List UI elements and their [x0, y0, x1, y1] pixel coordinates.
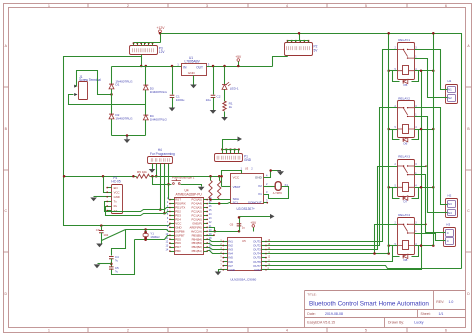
- connector H4 body: [148, 157, 173, 164]
- wire PB5 stub: [208, 235, 215, 237]
- svg-text:U3: U3: [245, 166, 249, 170]
- wire H4 pin3 serial: [160, 164, 162, 210]
- svg-text:HC-05: HC-05: [111, 180, 120, 184]
- driver U5 ULN2003A body: [228, 238, 262, 271]
- connector H4 pin texts: [151, 158, 153, 162]
- frame row ticks right: [466, 86, 472, 88]
- wire relay2 pin1 to H2 N4: [415, 117, 446, 213]
- svg-text:3: 3: [206, 4, 208, 8]
- wire PB3 to IN2: [208, 244, 223, 246]
- svg-text:PB0: PB0: [175, 249, 181, 253]
- wire reset branch down: [153, 177, 172, 185]
- ground C4 C5: [94, 264, 101, 268]
- svg-text:U5: U5: [242, 239, 246, 243]
- wire xtal2 down to C5 loop: [112, 240, 135, 275]
- wire C1 to ground: [172, 98, 174, 108]
- wire button line mid: [153, 184, 172, 186]
- connector J1 pin 1 arrow: [74, 85, 77, 88]
- wire COM to coil bus: [267, 71, 422, 270]
- wire xtal1 line to PB6: [126, 230, 170, 232]
- wire SDA net: [209, 199, 231, 201]
- diode D1 symbol: [109, 84, 114, 89]
- svg-text:D8: D8: [404, 258, 408, 262]
- ground U1: [190, 85, 197, 89]
- svg-text:1k: 1k: [229, 105, 233, 109]
- node RELAY4 pin4 com bus: [420, 244, 423, 247]
- connector P2 body: [285, 43, 313, 56]
- connector P1 pin texts: [217, 156, 219, 160]
- svg-text:D6: D6: [404, 141, 408, 145]
- node C6 top: [238, 216, 241, 219]
- svg-text:EasyEDA V5.6.15: EasyEDA V5.6.15: [307, 321, 335, 325]
- relay RELAY3 body: [398, 160, 415, 197]
- svg-text:GND: GND: [228, 268, 234, 272]
- ground push button: [198, 187, 205, 191]
- relay RELAY2 contacts: [397, 108, 414, 117]
- U3 SQWOUT stub: [264, 202, 268, 204]
- wire P3 pin tie: [134, 42, 161, 44]
- connector J1 pin 2 arrow: [74, 93, 77, 96]
- wire R1 to ground: [224, 112, 226, 118]
- MCU U4 left pins: [170, 199, 175, 201]
- crystal X1 32k symbol: [275, 182, 281, 191]
- svg-text:L7805ABV: L7805ABV: [185, 60, 201, 64]
- ground H4: [149, 169, 156, 173]
- node C9 tap on VCC rail: [100, 224, 103, 227]
- svg-text:VCC: VCC: [114, 190, 120, 194]
- connector H1 pin N1: [448, 87, 456, 93]
- resistor R4 pullup SCL: [218, 180, 221, 199]
- relay RELAY1 contacts: [397, 49, 414, 58]
- wire RELAY1 pin5 to bus: [389, 70, 398, 72]
- wire C9 drop: [101, 226, 103, 231]
- connector P4 HC-05 body: [112, 185, 123, 214]
- wire relay1 pin1 to H1 N2: [415, 59, 446, 98]
- wire main DC rail into U1: [112, 66, 182, 68]
- node +12V rail junction: [159, 32, 162, 35]
- connector P3 pin texts: [133, 48, 135, 52]
- svg-text:H2: H2: [448, 194, 452, 198]
- connector H1 body: [446, 85, 458, 104]
- ground C1: [169, 108, 176, 112]
- wire reset rail right segment: [150, 176, 222, 178]
- node RELAY1 pin5 bus: [387, 69, 390, 72]
- svg-text:1N4007RLG: 1N4007RLG: [150, 118, 168, 122]
- ground U5: [215, 272, 222, 276]
- relay RELAY3 contacts: [397, 166, 414, 175]
- resistor R1 symbol: [223, 101, 226, 111]
- wire +5V rail to U3 VCC: [222, 171, 242, 187]
- wire U3 GND to ground: [264, 171, 278, 178]
- RTC U3 DS1307 body: [231, 174, 264, 204]
- node H4 pin5 button line: [167, 183, 170, 186]
- diode D4 symbol: [143, 115, 148, 120]
- wire +12V stem: [160, 33, 162, 43]
- resistor R3 pullup SDA: [209, 180, 212, 199]
- svg-text:AREF(P6): AREF(P6): [190, 225, 202, 229]
- svg-text:D7: D7: [404, 200, 408, 204]
- capacitor C6 symbol: [237, 224, 242, 226]
- wire C6 vertical: [239, 217, 241, 232]
- wire U3 X2 to crystal: [264, 186, 276, 188]
- svg-text:1.0: 1.0: [449, 300, 454, 304]
- connector H3 pin C: [446, 230, 454, 237]
- svg-text:N1: N1: [448, 88, 452, 92]
- node H4 pin4: [163, 212, 166, 215]
- node R4 bottom SCL: [218, 202, 221, 205]
- connector H1 pin N2: [448, 95, 456, 102]
- svg-text:PC4(A4): PC4(A4): [191, 202, 201, 206]
- svg-text:ATMEGA328P-PU: ATMEGA328P-PU: [176, 192, 203, 196]
- wire SCL net: [209, 203, 231, 204]
- wire P1 tie to ground: [223, 140, 238, 150]
- wire C9 bottom diagonal to xtal line: [102, 230, 126, 241]
- svg-text:6: 6: [445, 328, 447, 332]
- title block: [305, 291, 466, 328]
- svg-text:C9: C9: [96, 228, 100, 232]
- wire H4 pin2 to +5V rail: [156, 164, 158, 177]
- wire bridge right branch: [145, 67, 147, 136]
- wire RELAY2 diode loop: [393, 130, 400, 140]
- wire RELAY2 pin5 to bus: [389, 129, 398, 131]
- svg-text:VBAT: VBAT: [233, 185, 241, 189]
- svg-text:N3: N3: [448, 202, 452, 206]
- svg-text:C: C: [447, 231, 449, 235]
- ground bridge bottom: [126, 136, 128, 140]
- wire OUT3 to relay3: [267, 167, 398, 250]
- node R5 left: [132, 175, 135, 178]
- node OUT4 corner: [373, 252, 376, 255]
- svg-text:VCC: VCC: [233, 175, 240, 179]
- wire OUT4 extension to coil bus: [375, 253, 389, 255]
- node R3 bottom SDA: [209, 198, 212, 201]
- flyback diode D5 symbol: [403, 79, 408, 83]
- svg-text:PB1(B1): PB1(B1): [192, 249, 202, 253]
- connector P3 pins top: [133, 43, 135, 46]
- svg-text:10u: 10u: [206, 98, 211, 102]
- wire RELAY3 diode loop: [393, 188, 400, 199]
- ground U3: [277, 171, 284, 175]
- capacitor C5 symbol: [109, 267, 114, 269]
- svg-text:SQWOUT: SQWOUT: [248, 201, 262, 205]
- svg-text:PB4(B4): PB4(B4): [192, 237, 202, 241]
- node coil bus top: [387, 32, 390, 35]
- svg-text:5: 5: [365, 4, 367, 8]
- wire relay2 pin3 to H2 N3: [415, 108, 446, 205]
- svg-text:C2: C2: [217, 94, 221, 98]
- MCU U4 ATMEGA328P body: [175, 198, 204, 255]
- wire LED drop: [224, 67, 226, 85]
- node RELAY1 pin4 com bus: [420, 69, 423, 72]
- push button S1 symbol: [173, 183, 175, 185]
- wire RELAY3 pin4 line: [415, 187, 434, 189]
- connector J1 screw terminal body: [79, 82, 88, 100]
- svg-text:A-TMHz: A-TMHz: [273, 192, 283, 195]
- wire RELAY2 pin4 line: [415, 129, 434, 131]
- wire RELAY4 pin5 to bus: [389, 245, 398, 247]
- svg-text:102: 102: [103, 233, 108, 237]
- svg-text:Date:: Date:: [307, 312, 315, 316]
- wire C4 to C5: [111, 259, 113, 267]
- wire crystal bottom line to PB7: [145, 239, 147, 241]
- relay RELAY4 body: [398, 218, 415, 255]
- wire HC-05 Rx to MCU: [106, 207, 170, 216]
- wire H4 pin1 to ground: [152, 164, 154, 170]
- wire relay3 pin1 to H3 C1: [415, 175, 444, 233]
- capacitor C1 symbol: [170, 95, 175, 97]
- node R5 right: [151, 175, 154, 178]
- svg-text:U3 DS1307+: U3 DS1307+: [237, 207, 255, 211]
- node P2 rail junction: [298, 32, 301, 35]
- node C1 tap: [171, 65, 174, 68]
- svg-text:4: 4: [286, 4, 288, 8]
- wire H4 pin5 to reset net: [168, 164, 170, 200]
- svg-text:C6: C6: [230, 222, 234, 226]
- node RELAY4 pin5 bus: [387, 244, 390, 247]
- connector P1 pins top: [222, 150, 224, 154]
- connector H3 pin C: [446, 238, 454, 245]
- node R3 top: [209, 175, 212, 178]
- node RELAY1 pin4 12v bus: [432, 69, 435, 72]
- wire P2 pin tie: [288, 40, 309, 42]
- wire RELAY4 diode loop: [393, 246, 400, 257]
- wire HC-05 GND: [94, 196, 107, 198]
- relay RELAY1 body: [398, 43, 415, 80]
- wire AREF branch: [209, 228, 215, 232]
- crystal Y1 symbol: [145, 230, 147, 233]
- node HC-05 VCC tap: [102, 175, 105, 178]
- wire +5V rail left segment: [64, 176, 134, 178]
- MCU U4 right pins: [204, 199, 208, 201]
- svg-text:1N4007RLG: 1N4007RLG: [150, 90, 168, 94]
- wire push button to ground: [181, 185, 202, 187]
- node rail left vertical: [63, 175, 66, 178]
- svg-text:5: 5: [365, 328, 367, 332]
- svg-text:PC5(A5): PC5(A5): [191, 198, 201, 202]
- wire P1 pin tie: [223, 149, 239, 151]
- svg-text:EN: EN: [114, 186, 118, 190]
- node U3 gnd corner: [269, 169, 272, 172]
- wire RELAY3 pin5 to bus: [389, 187, 398, 189]
- svg-text:PB5(B5): PB5(B5): [192, 233, 202, 237]
- svg-text:ST: ST: [114, 209, 118, 213]
- svg-text:AVCC(A): AVCC(A): [191, 229, 202, 233]
- ground right arrow AVCC: [270, 214, 275, 219]
- svg-text:Drawn By:: Drawn By:: [388, 321, 404, 325]
- wire AVCC line: [209, 231, 240, 233]
- voltage regulator U1 body: [182, 64, 207, 76]
- connector P2 pins top: [287, 41, 289, 43]
- node crystal top tap: [144, 228, 147, 231]
- node RELAY2 pin4 com bus: [420, 128, 423, 131]
- wire U1 GND stem: [193, 76, 195, 85]
- wire PB4 to IN1: [208, 240, 223, 242]
- wire HC-05 Tx to MCU: [105, 202, 170, 212]
- wire J1 pin1 to bridge node A: [77, 71, 112, 95]
- svg-text:RELAY1: RELAY1: [398, 38, 410, 42]
- svg-text:Rx: Rx: [114, 204, 118, 208]
- wire relay coil bus left: [388, 34, 390, 254]
- wire C9 to ground: [101, 233, 103, 244]
- connector P2 pin texts: [287, 46, 289, 50]
- svg-text:LED-1: LED-1: [230, 86, 239, 90]
- wire PB2 to IN3: [208, 248, 223, 250]
- wire OUT6 to relay4 diode: [267, 257, 393, 262]
- wire RELAY4 pin4 line: [415, 245, 434, 247]
- wire relay3 pin3 stub: [415, 166, 427, 168]
- wire C6 top to gnd arrow: [240, 216, 271, 218]
- svg-text:3: 3: [206, 328, 208, 332]
- svg-text:12V: 12V: [159, 50, 166, 54]
- wire U1 output rail: [207, 66, 273, 68]
- node RELAY3 pin5 bus: [387, 186, 390, 189]
- svg-text:1/1: 1/1: [439, 312, 444, 316]
- diode D2 symbol: [109, 114, 114, 119]
- wire VBAT lead: [222, 186, 231, 188]
- svg-text:1000u: 1000u: [176, 98, 185, 102]
- wire relay4 pin1 to H3 C2: [415, 234, 444, 241]
- svg-text:SCL: SCL: [233, 201, 239, 205]
- capacitor C9 symbol: [99, 231, 104, 233]
- wire bridge left branch: [111, 67, 113, 136]
- wire OUT1 to relay1: [267, 50, 398, 242]
- node C2 tap: [212, 65, 215, 68]
- resistor R5 symbol: [136, 174, 150, 178]
- capacitor C4 symbol: [109, 257, 114, 259]
- svg-text:GND: GND: [114, 195, 120, 199]
- svg-text:RELAY4: RELAY4: [398, 213, 410, 217]
- frame row ticks left: [3, 86, 9, 88]
- connector H3 body: [444, 228, 456, 247]
- svg-text:Lucky: Lucky: [414, 321, 423, 325]
- svg-text:Sheet:: Sheet:: [421, 312, 431, 316]
- svg-text:Push Button(pb 1: Push Button(pb 1: [172, 175, 195, 179]
- wire H4 pin4 serial: [164, 164, 166, 214]
- svg-text:PC3(A3): PC3(A3): [191, 206, 201, 210]
- svg-text:6: 6: [445, 4, 447, 8]
- svg-text:H1: H1: [448, 79, 452, 83]
- ground C2: [210, 110, 217, 114]
- wire OUT2 to relay2: [267, 108, 398, 246]
- connector H2 body: [446, 199, 458, 218]
- wire RELAY1 diode loop: [393, 71, 400, 82]
- node 12v bus top: [432, 32, 435, 35]
- wire P2 tie to +12V rail: [299, 34, 301, 41]
- svg-text:1: 1: [48, 328, 50, 332]
- node RELAY3 pin4 com bus: [420, 186, 423, 189]
- wire HC-05 VCC to rail: [104, 177, 107, 193]
- wire J1 pin2 to bridge node B: [69, 95, 146, 105]
- ground HC-05: [90, 198, 97, 202]
- svg-text:16MHz: 16MHz: [150, 235, 160, 239]
- node C4 C5 mid ground tap: [110, 263, 113, 266]
- flyback diode D6 symbol: [403, 138, 408, 142]
- svg-text:2: 2: [127, 4, 129, 8]
- svg-text:COM: COM: [254, 268, 261, 272]
- connector P1 body: [215, 154, 243, 162]
- node C6 bottom: [238, 230, 241, 233]
- svg-text:R5 10k: R5 10k: [137, 170, 147, 174]
- svg-text:?u: ?u: [115, 258, 119, 262]
- svg-text:1N4007RLG: 1N4007RLG: [115, 117, 133, 121]
- node R4 top: [218, 175, 221, 178]
- connector H2 pin N3: [448, 201, 456, 208]
- wire OUT7 to +12V riser: [267, 266, 462, 269]
- svg-text:+12V: +12V: [156, 26, 165, 30]
- wire U5 GND to ground: [219, 270, 223, 272]
- svg-text:X1: X1: [258, 192, 262, 196]
- frame column ticks top: [87, 3, 89, 8]
- svg-text:GND: GND: [188, 71, 196, 75]
- driver U5 left pins: [223, 241, 228, 243]
- flyback diode D8 symbol: [403, 254, 408, 258]
- diode D3 symbol: [143, 85, 148, 90]
- relay RELAY2 coil: [403, 125, 409, 134]
- node H4 pin3: [159, 208, 162, 211]
- wire C2 to ground: [213, 98, 215, 111]
- wire C1 drop: [172, 67, 174, 95]
- svg-text:D1: D1: [115, 83, 119, 87]
- node bridge ground tap: [126, 134, 129, 137]
- svg-text:PB3(B3): PB3(B3): [192, 241, 202, 245]
- svg-text:2019-08-08: 2019-08-08: [325, 312, 343, 316]
- wire R5 left lead: [134, 176, 137, 178]
- svg-text:H3: H3: [446, 223, 450, 227]
- svg-text:C: C: [447, 239, 449, 243]
- svg-text:?u: ?u: [115, 269, 119, 273]
- node RELAY2 pin4 12v bus: [432, 128, 435, 131]
- node coil bus bottom: [387, 252, 390, 255]
- wire bridge bottom rail: [112, 135, 146, 137]
- svg-text:PC1(A1): PC1(A1): [191, 214, 201, 218]
- node H4 pin2 rail: [155, 175, 158, 178]
- wire +12V top rail to relays: [161, 34, 462, 269]
- node A bridge D1-D2 junction: [110, 93, 113, 96]
- node RELAY4 pin4 12v bus: [432, 244, 435, 247]
- wire U3 X1 loop to crystal: [264, 187, 289, 199]
- svg-text:PB2(B2): PB2(B2): [192, 245, 202, 249]
- svg-text:N2: N2: [448, 96, 452, 100]
- flyback diode D7 symbol: [403, 196, 408, 200]
- connector H2 pin N4: [448, 210, 456, 216]
- svg-text:1u: 1u: [242, 226, 246, 230]
- driver U5 right pins: [262, 241, 267, 243]
- svg-text:1: 1: [48, 4, 50, 8]
- wire OUT4 to relay4: [267, 225, 398, 254]
- wire C4 branch riser: [112, 230, 126, 256]
- wire P2 bottom pin: [287, 56, 289, 57]
- wire relay1 pin3 to H1 N1: [415, 50, 446, 90]
- svg-text:D5: D5: [404, 83, 408, 87]
- wire 12v coil bus right: [433, 34, 435, 246]
- node +5V rail: [237, 65, 240, 68]
- ground R1: [221, 117, 228, 121]
- node rail vcc crossing: [220, 175, 223, 178]
- svg-text:For Programming: For Programming: [150, 152, 175, 156]
- relay RELAY4 contacts: [397, 224, 414, 233]
- wire left AC loop: [64, 57, 175, 226]
- ground C9: [96, 244, 103, 248]
- svg-text:PC2(A2): PC2(A2): [191, 210, 201, 214]
- wire relay4 pin3 stub: [415, 224, 427, 226]
- node LED tap: [223, 65, 226, 68]
- connector P3 body: [130, 46, 158, 55]
- svg-text:N4: N4: [448, 211, 452, 215]
- wire P3 bottom pin down: [141, 55, 143, 67]
- wire C2 drop: [213, 67, 215, 95]
- node crystal bottom tap: [144, 239, 147, 242]
- svg-text:GND: GND: [255, 176, 263, 180]
